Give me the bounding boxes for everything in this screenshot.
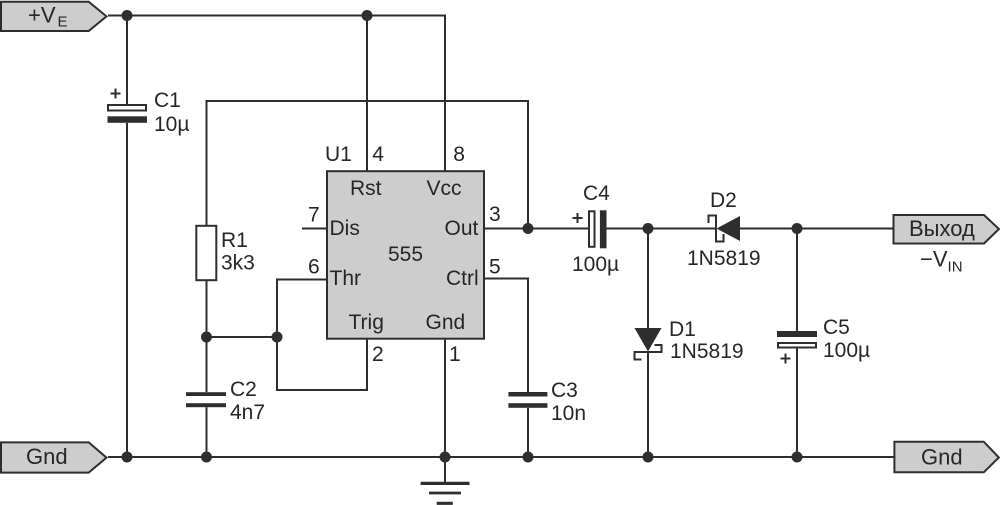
svg-text:1N5819: 1N5819 — [687, 247, 761, 270]
svg-text:Gnd: Gnd — [426, 311, 466, 334]
svg-text:Rst: Rst — [350, 177, 382, 200]
svg-text:2: 2 — [372, 343, 384, 366]
svg-text:100µ: 100µ — [572, 253, 619, 276]
svg-text:100µ: 100µ — [823, 339, 870, 362]
svg-text:5: 5 — [489, 256, 501, 279]
svg-text:D2: D2 — [710, 189, 737, 212]
svg-text:C1: C1 — [154, 89, 181, 112]
svg-text:C3: C3 — [551, 379, 578, 402]
svg-text:Gnd: Gnd — [26, 444, 68, 469]
svg-text:3: 3 — [489, 203, 501, 226]
svg-text:555: 555 — [388, 243, 423, 266]
svg-text:C2: C2 — [230, 378, 257, 401]
svg-text:1N5819: 1N5819 — [670, 340, 744, 363]
svg-text:Dis: Dis — [330, 217, 360, 240]
svg-text:10n: 10n — [551, 402, 586, 425]
svg-text:1: 1 — [449, 343, 461, 366]
svg-text:Gnd: Gnd — [921, 445, 963, 470]
svg-text:D1: D1 — [669, 318, 696, 341]
svg-text:U1: U1 — [325, 143, 352, 166]
svg-text:10µ: 10µ — [154, 113, 189, 136]
svg-text:C4: C4 — [583, 182, 610, 205]
svg-text:Ctrl: Ctrl — [446, 267, 479, 290]
svg-text:4: 4 — [372, 143, 384, 166]
svg-text:3k3: 3k3 — [221, 252, 255, 275]
svg-text:7: 7 — [308, 204, 320, 227]
svg-text:4n7: 4n7 — [230, 401, 265, 424]
svg-text:8: 8 — [453, 143, 465, 166]
svg-text:Trig: Trig — [349, 311, 384, 334]
svg-text:R1: R1 — [221, 229, 248, 252]
svg-text:6: 6 — [308, 256, 320, 279]
svg-text:C5: C5 — [823, 316, 850, 339]
svg-text:Vcc: Vcc — [427, 177, 462, 200]
svg-text:Out: Out — [445, 217, 479, 240]
svg-text:Выход: Выход — [909, 216, 975, 241]
svg-text:Thr: Thr — [330, 267, 362, 290]
